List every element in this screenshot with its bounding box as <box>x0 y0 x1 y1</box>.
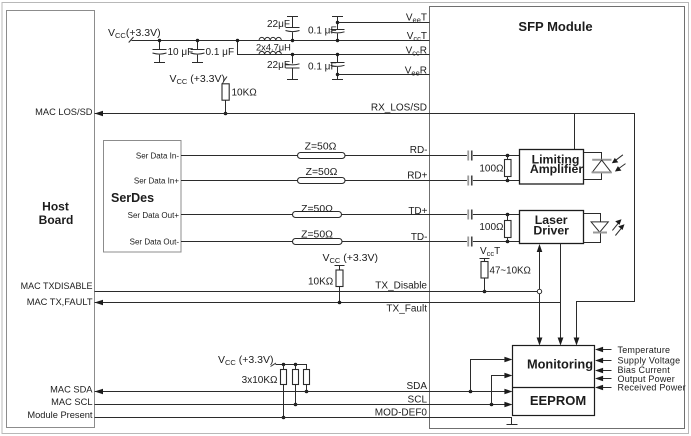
capacitor coupling RD- <box>467 151 469 161</box>
svg-text:Monitoring: Monitoring <box>527 357 593 372</box>
wire RX_LOS/SD <box>95 111 635 341</box>
wire MOD-DEF0 <box>95 418 512 425</box>
wire SDA riser to Monitoring <box>469 357 513 394</box>
svg-text:Z=50Ω: Z=50Ω <box>301 204 333 215</box>
capacitor coupling RD+ <box>467 176 469 186</box>
svg-text:RX_LOS/SD: RX_LOS/SD <box>371 103 427 114</box>
wire TX_Disable <box>95 291 538 293</box>
svg-text:Supply Voltage: Supply Voltage <box>618 355 681 365</box>
inductor L1 2x4.7uH top coil <box>259 37 281 40</box>
capacitor C2 0.1uF with ground <box>191 39 235 63</box>
svg-text:Ser Data In+: Ser Data In+ <box>134 176 179 185</box>
ground MOD-DEF0 <box>507 424 518 426</box>
svg-text:MAC TX,FAULT: MAC TX,FAULT <box>27 297 93 307</box>
svg-text:22μF: 22μF <box>267 19 290 30</box>
SerDes box <box>104 141 182 253</box>
svg-text:MAC TXDISABLE: MAC TXDISABLE <box>21 281 93 291</box>
svg-text:Received Power: Received Power <box>618 383 686 393</box>
resistor R3 100 Ohm TX termination <box>479 213 511 244</box>
laser diode D2 frame <box>584 214 601 243</box>
svg-text:SCL: SCL <box>408 395 428 406</box>
wire TX_Disable up into Laser Driver <box>537 244 543 289</box>
svg-text:0.1 μF: 0.1 μF <box>308 62 337 73</box>
microstrip Z=50 (RD+) <box>298 167 346 184</box>
wire branch RX_LOS to Limiting Amplifier <box>574 114 576 150</box>
power tap VccT for 47~10K pullup <box>480 246 501 262</box>
svg-text:47~10KΩ: 47~10KΩ <box>490 266 531 277</box>
monitor input Temperature <box>595 345 670 355</box>
wire VeeT <box>338 22 430 24</box>
capacitor C5 22uF (VccR to ground stub) <box>267 53 300 80</box>
op-amp U1 Limiting Amplifier box <box>520 150 584 185</box>
transistor/laser driver U2 box <box>520 211 584 244</box>
svg-text:MAC LOS/SD: MAC LOS/SD <box>35 107 93 117</box>
wire RX_LOS route down to Monitoring <box>574 338 580 346</box>
wire SDA <box>95 389 513 395</box>
svg-text:0.1 μF: 0.1 μF <box>206 47 235 58</box>
svg-text:22μF: 22μF <box>267 60 290 71</box>
resistor R5 10KOhm TX_Fault pullup <box>308 252 378 304</box>
Monitoring / EEPROM box <box>513 346 595 416</box>
photodiode D1 <box>592 160 612 173</box>
monitor input Output Power <box>595 374 675 384</box>
microstrip Z=50 (TD+) <box>293 204 342 218</box>
svg-text:Board: Board <box>39 213 74 227</box>
wire TX_Fault <box>95 300 561 306</box>
microstrip Z=50 (TD-) <box>293 230 343 245</box>
capacitor C1 10uF with ground <box>153 39 194 63</box>
power tap Vcc(+3.3V) top-left <box>108 27 161 43</box>
svg-text:10KΩ: 10KΩ <box>308 277 334 288</box>
svg-text:TD+: TD+ <box>408 206 427 217</box>
svg-text:Module Present: Module Present <box>27 410 93 420</box>
svg-text:Ser Data In-: Ser Data In- <box>136 151 179 160</box>
svg-text:SFP Module: SFP Module <box>518 19 592 34</box>
monitor input Bias Current <box>595 365 670 375</box>
resistor R8 10K (SDA pullup) <box>242 370 310 394</box>
wire VccT rail (y=40.5) <box>132 40 430 42</box>
monitor input Supply Voltage <box>595 355 680 365</box>
svg-text:MAC SDA: MAC SDA <box>50 384 93 394</box>
svg-text:Driver: Driver <box>533 223 569 237</box>
wire TD- <box>181 241 520 243</box>
node: rail corner junction <box>236 39 239 42</box>
resistor R7 10K (SCL pullup) <box>293 363 299 407</box>
photodiode D1 frame <box>584 153 602 180</box>
svg-text:Host: Host <box>42 199 69 213</box>
svg-text:TD-: TD- <box>411 232 428 243</box>
svg-text:SerDes: SerDes <box>111 191 154 205</box>
svg-text:EEPROM: EEPROM <box>530 393 586 408</box>
power tap Vcc(+3.3V) for 3x10K <box>218 354 276 367</box>
svg-text:2x4.7μH: 2x4.7μH <box>256 43 291 53</box>
capacitor C3 22uF (VccT to VeeT stub) <box>267 17 300 43</box>
svg-text:RD+: RD+ <box>407 171 427 182</box>
resistor R6 10K (MOD-DEF0 pullup) <box>281 363 287 420</box>
svg-text:RD-: RD- <box>410 145 428 156</box>
capacitor C4 0.1uF (VeeT to VccT) <box>308 17 345 43</box>
wire SCL <box>95 402 513 408</box>
light arrows out of laser diode <box>612 219 624 235</box>
svg-text:10KΩ: 10KΩ <box>232 88 258 99</box>
laser diode D2 <box>591 222 608 233</box>
svg-text:0.1 μF: 0.1 μF <box>308 26 337 37</box>
wire VeeR <box>338 74 430 76</box>
node TX_Disable open circle <box>537 289 541 293</box>
resistor R2 100 Ohm RX termination <box>479 154 511 183</box>
svg-text:TX_Disable: TX_Disable <box>375 281 427 292</box>
resistor R4 47~10KOhm <box>481 262 531 294</box>
svg-text:MAC SCL: MAC SCL <box>51 397 92 407</box>
resistor R1 10KOhm RX_LOS pullup <box>222 84 257 115</box>
svg-text:Amplifier: Amplifier <box>530 162 584 176</box>
Host Board box <box>7 11 95 428</box>
svg-text:MOD-DEF0: MOD-DEF0 <box>375 407 428 418</box>
svg-text:100Ω: 100Ω <box>479 164 504 175</box>
wire TX_Disable down to Monitoring <box>537 294 543 346</box>
svg-text:TX_Fault: TX_Fault <box>386 304 427 315</box>
capacitor coupling TD- <box>467 237 469 247</box>
capacitor C6 0.1uF (VccR to VeeR) <box>308 53 345 80</box>
wire Laser Driver to TX_Fault to Monitoring <box>558 244 564 346</box>
wire 3x10K top rail <box>276 365 307 370</box>
microstrip Z=50 (RD-) <box>298 142 346 159</box>
svg-text:Temperature: Temperature <box>618 345 671 355</box>
monitor input Received Power <box>595 383 686 393</box>
SFP Module box <box>430 7 685 429</box>
svg-text:100Ω: 100Ω <box>479 222 504 233</box>
power tap Vcc(+3.3V) for RX pullup <box>170 73 228 86</box>
svg-text:Z=50Ω: Z=50Ω <box>301 230 333 241</box>
svg-text:Z=50Ω: Z=50Ω <box>305 142 337 153</box>
wire TD+ <box>181 214 520 216</box>
svg-text:Ser Data Out-: Ser Data Out- <box>130 237 180 246</box>
capacitor coupling TD+ <box>467 210 469 220</box>
svg-text:3x10KΩ: 3x10KΩ <box>242 375 278 386</box>
wire RD+ <box>181 180 520 182</box>
wire SCL riser to Monitoring <box>490 373 513 407</box>
svg-text:Ser Data Out+: Ser Data Out+ <box>128 211 180 220</box>
svg-text:Z=50Ω: Z=50Ω <box>306 167 338 178</box>
light arrows into photodiode <box>612 155 626 172</box>
svg-text:10 μF: 10 μF <box>168 47 194 58</box>
inductor L2 bottom coil <box>256 43 291 55</box>
wire VccR branch (corner at x=237.5 down to y=55) <box>238 41 430 55</box>
wire RD- <box>181 155 520 157</box>
svg-text:SDA: SDA <box>406 381 427 392</box>
